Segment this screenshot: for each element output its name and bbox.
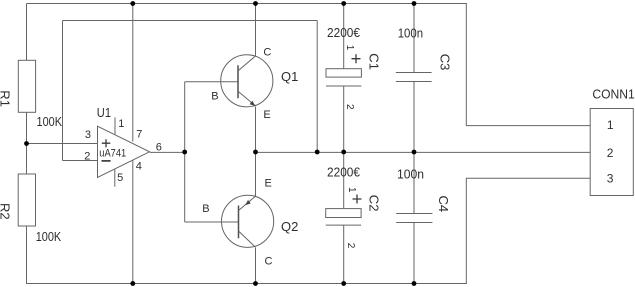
svg-text:4: 4 (136, 161, 142, 173)
node R1 R2 junction (24, 141, 29, 146)
transistor Q1 collector stroke (238, 56, 256, 71)
svg-text:E: E (263, 109, 270, 121)
capacitor C3 plates (396, 73, 432, 82)
connector CONN1 body (590, 109, 633, 196)
resistor R1 body (18, 60, 35, 112)
node middle C1 C2 (341, 150, 346, 155)
svg-text:1: 1 (344, 45, 355, 51)
capacitor C4 (396, 166, 451, 222)
svg-text:2200€: 2200€ (327, 165, 361, 180)
svg-text:3: 3 (607, 172, 614, 186)
svg-text:2: 2 (84, 151, 90, 163)
op-amp U1 pin 1 stub (114, 117, 116, 134)
wire feedback left vertical (62, 21, 64, 161)
wire C2 bottom lead (343, 225, 345, 284)
wire C2 top lead (343, 152, 345, 208)
svg-text:C3: C3 (437, 54, 452, 71)
svg-text:C1: C1 (367, 53, 382, 70)
svg-text:B: B (202, 203, 209, 215)
wire Q2 base vertical (184, 152, 186, 222)
wire opamp pin4 supply (132, 161, 134, 285)
wire Q1 collector (255, 4, 257, 56)
svg-text:C: C (265, 256, 273, 268)
svg-text:Q1: Q1 (281, 69, 298, 84)
wire feedback top (63, 20, 318, 22)
svg-text:100n: 100n (397, 166, 424, 181)
resistor R1 (0, 60, 62, 129)
wire CONN1 pin1 (466, 125, 590, 127)
svg-text:R1: R1 (0, 90, 13, 107)
svg-text:U1: U1 (97, 105, 111, 120)
capacitor C2 (326, 165, 382, 249)
svg-text:100K: 100K (36, 229, 62, 244)
transistor Q2 emitter stroke (239, 196, 256, 210)
wire middle output rail (256, 151, 591, 153)
wire C1 bottom lead (343, 86, 345, 152)
transistor Q1 circle (221, 55, 273, 107)
svg-text:100n: 100n (398, 25, 423, 40)
wire Q1 base vertical (184, 82, 186, 153)
transistor Q1 (211, 47, 298, 121)
svg-text:2: 2 (345, 243, 356, 249)
transistor Q2 collector stroke (239, 231, 256, 247)
transistor Q1 emitter stroke (238, 91, 256, 106)
node bottom pin4 (130, 281, 135, 286)
svg-text:C: C (263, 47, 271, 59)
transistor Q2 circle (222, 195, 274, 247)
node top pin7 (130, 1, 135, 6)
node top Q1 collector (253, 1, 258, 6)
capacitor C2 positive plate box (326, 209, 361, 218)
wire right top vertical (465, 4, 467, 126)
capacitor C3 (396, 25, 453, 81)
node top C1 (341, 1, 346, 6)
node middle C3 C4 (412, 150, 417, 155)
transistor Q1 base bar (237, 65, 239, 98)
transistor Q1 emitter arrow (250, 101, 256, 106)
op-amp U1 pin 5 stub (114, 169, 116, 187)
svg-text:CONN1: CONN1 (592, 87, 634, 102)
svg-text:100K: 100K (37, 114, 63, 129)
svg-text:R2: R2 (0, 203, 13, 220)
op-amp U1 plus input mark (102, 139, 111, 147)
svg-text:5: 5 (117, 172, 123, 184)
svg-text:B: B (211, 91, 218, 103)
svg-text:1: 1 (118, 118, 124, 130)
wire opamp output (150, 151, 185, 153)
svg-text:2: 2 (344, 104, 355, 110)
polarity plus (C1) (352, 54, 361, 63)
svg-text:3: 3 (85, 129, 91, 141)
wire C4 bottom lead (413, 223, 415, 285)
wire opamp pin7 supply (132, 4, 134, 142)
svg-text:7: 7 (136, 128, 142, 140)
capacitor C2 negative plate (326, 224, 361, 226)
wire right bottom vertical (465, 178, 467, 284)
node top C3 (412, 1, 417, 6)
wire CONN1 pin3 (466, 177, 590, 179)
svg-text:2: 2 (607, 146, 614, 160)
wire C1 top lead (343, 4, 345, 69)
wire opamp inverting input (63, 160, 98, 162)
wire C4 top lead (413, 152, 415, 213)
capacitor C1 negative plate (326, 85, 361, 87)
connector CONN1 (590, 87, 635, 196)
transistor Q2 (202, 178, 298, 268)
svg-text:C2: C2 (366, 195, 381, 212)
wire Q2 emitter (255, 152, 257, 196)
op-amp U1 triangle body (98, 126, 150, 177)
svg-text:6: 6 (156, 142, 162, 154)
svg-text:C4: C4 (436, 196, 451, 213)
svg-text:Q2: Q2 (281, 219, 298, 234)
resistor R2 (0, 174, 61, 244)
capacitor C1 (326, 25, 382, 110)
svg-text:1: 1 (346, 187, 357, 193)
node opamp output (182, 150, 187, 155)
node feedback junction (315, 150, 320, 155)
node bottom C4 (412, 281, 417, 286)
wire Q2 base horizontal (185, 221, 239, 223)
resistor R2 body (18, 174, 35, 226)
wire left rail middle (26, 112, 28, 174)
capacitor C4 plates (396, 214, 432, 223)
svg-text:uA741: uA741 (99, 148, 126, 160)
node emitters junction (253, 150, 258, 155)
transistor Q2 emitter arrow (245, 200, 251, 205)
svg-text:1: 1 (607, 118, 614, 132)
svg-text:E: E (265, 178, 272, 190)
node bottom C2 (341, 281, 346, 286)
wire opamp noninverting input (27, 143, 98, 145)
polarity plus (C2) (353, 195, 362, 204)
svg-text:2200€: 2200€ (327, 25, 361, 40)
wire top rail (27, 3, 467, 5)
node bottom Q2 collector (253, 281, 258, 286)
wire C3 top lead (413, 4, 415, 73)
wire left rail lower (26, 226, 28, 284)
wire left rail upper (26, 4, 28, 61)
op-amp U1 (84, 105, 162, 187)
wire C3 bottom lead (413, 82, 415, 153)
wire Q1 emitter (255, 107, 257, 153)
wire Q1 base horizontal (185, 81, 238, 83)
wire bottom rail (27, 283, 467, 285)
wire Q2 collector (255, 248, 257, 284)
capacitor C1 positive plate box (326, 69, 361, 77)
wire feedback right vertical (316, 21, 318, 153)
transistor Q2 base bar (238, 206, 240, 239)
op-amp U1 minus input mark (102, 160, 111, 162)
